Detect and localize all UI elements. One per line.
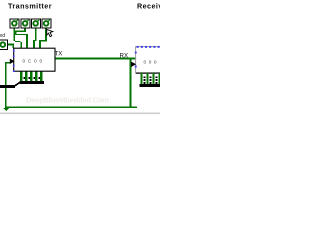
svg-text:cxd: cxd <box>0 33 5 39</box>
svg-text:000: 000 <box>144 59 160 64</box>
wire into TX arrow <box>5 62 11 64</box>
decoder pin stubs to ground <box>140 73 161 87</box>
wire bottom common (ground run) <box>5 106 137 108</box>
wire button5 to encoder input <box>6 44 15 48</box>
push button B1 <box>10 19 19 28</box>
ground bus bar under encoder <box>20 81 45 84</box>
mouse cursor <box>47 29 53 36</box>
pin number marks <box>144 77 146 85</box>
wire B2 to encoder <box>15 26 28 48</box>
blue dashes left edge <box>135 52 137 54</box>
encoder block U1 <box>14 48 55 71</box>
svg-text:DeepBlueMbedded.Com: DeepBlueMbedded.Com <box>26 96 109 105</box>
input arrow at encoder left <box>10 59 15 64</box>
input arrow at decoder left <box>131 62 136 67</box>
page boundary gray line <box>0 113 160 115</box>
wire into RX arrow <box>130 63 134 65</box>
svg-text:TX: TX <box>55 51 63 58</box>
encoder pin stubs to ground <box>20 71 22 82</box>
wire TX data (long horizontal) <box>55 58 136 60</box>
wire RX jog down <box>130 58 132 108</box>
ground bus bar to left edge <box>0 85 15 88</box>
ground bus bar under decoder <box>140 84 161 87</box>
push button B2 <box>21 19 30 28</box>
blue dashes top edge <box>135 46 160 68</box>
wire left vertical to bottom <box>5 62 7 107</box>
pin number marks <box>23 77 25 79</box>
svg-text:Receiver: Receiver <box>137 2 160 11</box>
svg-text:Transmitter: Transmitter <box>8 2 52 11</box>
ground bus diagonal <box>13 81 21 88</box>
push button B5 (left edge, cut off) <box>0 40 8 50</box>
decoder block U2 (selected, dashed blue) <box>135 46 161 74</box>
blue selection dots encoder left edge <box>13 50 15 72</box>
wire B4 to encoder <box>39 26 47 48</box>
push button B3 <box>31 19 40 28</box>
push button B4 <box>42 19 51 28</box>
svg-text:0C00: 0C00 <box>23 58 45 63</box>
junction arrow at bottom-left <box>4 108 10 111</box>
wire B3 to encoder <box>33 26 36 48</box>
wire B1 to encoder <box>13 26 22 48</box>
